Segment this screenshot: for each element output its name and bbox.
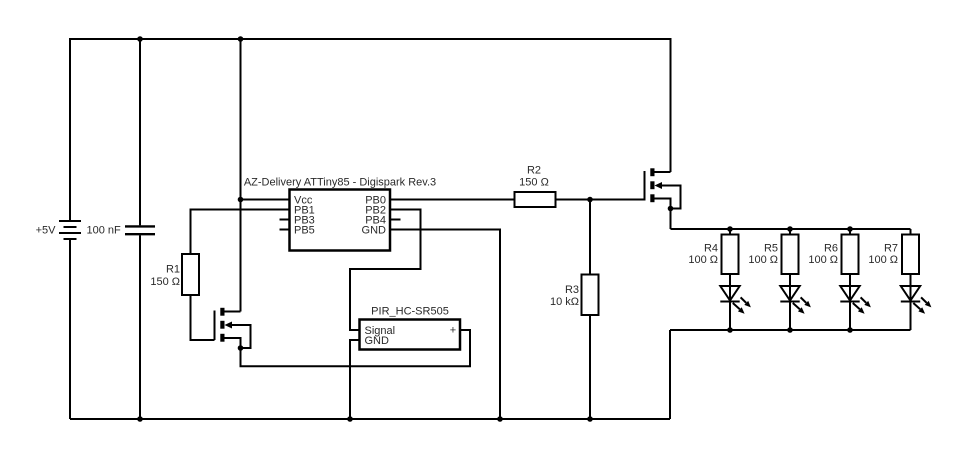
svg-text:R1: R1 (166, 264, 180, 276)
svg-text:10 kΩ: 10 kΩ (550, 296, 579, 308)
wire: Vcc net vertical from top rail to Q2 drain (240, 39, 242, 312)
wire: R1 bottom to Q2 gate (191, 295, 215, 340)
svg-text:150 Ω: 150 Ω (150, 276, 180, 288)
capacitor C1 bottom wire (139, 235, 141, 419)
wire: LED return rail (670, 329, 911, 331)
node: Vcc pin junction (238, 197, 244, 203)
node: feed rail / R6 (847, 226, 853, 232)
wire: LED feed rail (671, 228, 911, 230)
pin stub PB5 (280, 229, 290, 231)
wire: IC PB1 pin to R1 (191, 210, 290, 255)
wire: +5V rail from battery top across top to Q1 drain (70, 39, 671, 221)
capacitor C1 top wire (139, 39, 141, 225)
node: IC GND / ground rail junction (497, 416, 503, 422)
LED D1 (720, 274, 751, 330)
resistor R2 (515, 192, 556, 207)
wire: Q2 source to PIR plus pin (241, 330, 471, 366)
wire: IC PB0 to R2 (390, 199, 515, 201)
wire: IC PB2 to PIR Signal (350, 210, 421, 331)
svg-text:+: + (450, 325, 456, 337)
IC U1 AZ-Delivery ATTiny85 box (290, 190, 391, 251)
svg-text:GND: GND (365, 335, 390, 347)
wire: junction down to R3 (589, 200, 591, 275)
svg-text:R5: R5 (764, 243, 778, 255)
wire: ground rail riser to LED return rail (669, 330, 671, 419)
resistor R6 (849, 229, 851, 235)
node: feed rail / R4 (727, 226, 733, 232)
node: R3 / ground rail junction (587, 416, 593, 422)
resistor R3 (582, 275, 599, 316)
LED D3 (840, 274, 871, 330)
LED D4 (901, 274, 932, 330)
resistor R5 (789, 229, 791, 235)
wire: R3 bottom to ground rail (589, 315, 591, 419)
svg-text:AZ-Delivery ATTiny85 - Digispa: AZ-Delivery ATTiny85 - Digispark Rev.3 (244, 177, 436, 189)
svg-text:R6: R6 (824, 243, 838, 255)
svg-text:GND: GND (362, 224, 387, 236)
svg-text:R3: R3 (565, 284, 579, 296)
wire: R2 to Q1 gate (556, 199, 645, 201)
resistor R1 (182, 254, 199, 295)
battery B1 +5V (59, 220, 81, 222)
wire: IC GND to ground rail (390, 230, 500, 420)
svg-text:R4: R4 (704, 243, 718, 255)
wire: PIR GND to ground rail (350, 340, 360, 419)
wire: ground rail along bottom (70, 418, 670, 420)
node: return rail / D3 (847, 327, 853, 333)
svg-text:100 Ω: 100 Ω (868, 254, 898, 266)
wire: Vcc junction to IC Vcc pin (241, 199, 290, 201)
resistor R7 (910, 229, 912, 235)
svg-text:100 Ω: 100 Ω (688, 254, 718, 266)
svg-text:100 nF: 100 nF (87, 225, 122, 237)
node: feed rail / R5 (787, 226, 793, 232)
pin stub PB3 (280, 219, 290, 221)
node: capacitor / ground rail junction (137, 416, 143, 422)
transistor Q1 (645, 168, 681, 211)
node: top rail / Vcc branch junction (238, 36, 244, 42)
PIR module HC-SR505 box (360, 320, 461, 350)
svg-text:150 Ω: 150 Ω (519, 177, 549, 189)
wire: Q1 source down to LED feed rail (670, 209, 672, 230)
LED D2 (780, 274, 811, 330)
resistor R4 (729, 229, 731, 235)
svg-text:PB5: PB5 (294, 224, 315, 236)
node: top rail / capacitor junction (137, 36, 143, 42)
wire: battery negative down to ground rail (69, 239, 71, 419)
pin stub PB4 (390, 219, 401, 221)
node: R2 / R3 junction (587, 197, 593, 203)
svg-text:R7: R7 (884, 243, 898, 255)
svg-text:PIR_HC-SR505: PIR_HC-SR505 (371, 306, 449, 318)
node: return rail / D1 (727, 327, 733, 333)
node: PIR GND / ground rail junction (347, 416, 353, 422)
transistor Q2 (215, 308, 251, 351)
node: return rail / D2 (787, 327, 793, 333)
svg-text:R2: R2 (527, 165, 541, 177)
svg-text:100 Ω: 100 Ω (748, 254, 778, 266)
svg-text:+5V: +5V (36, 225, 57, 237)
svg-text:100 Ω: 100 Ω (808, 254, 838, 266)
capacitor C1 plates (125, 225, 155, 227)
